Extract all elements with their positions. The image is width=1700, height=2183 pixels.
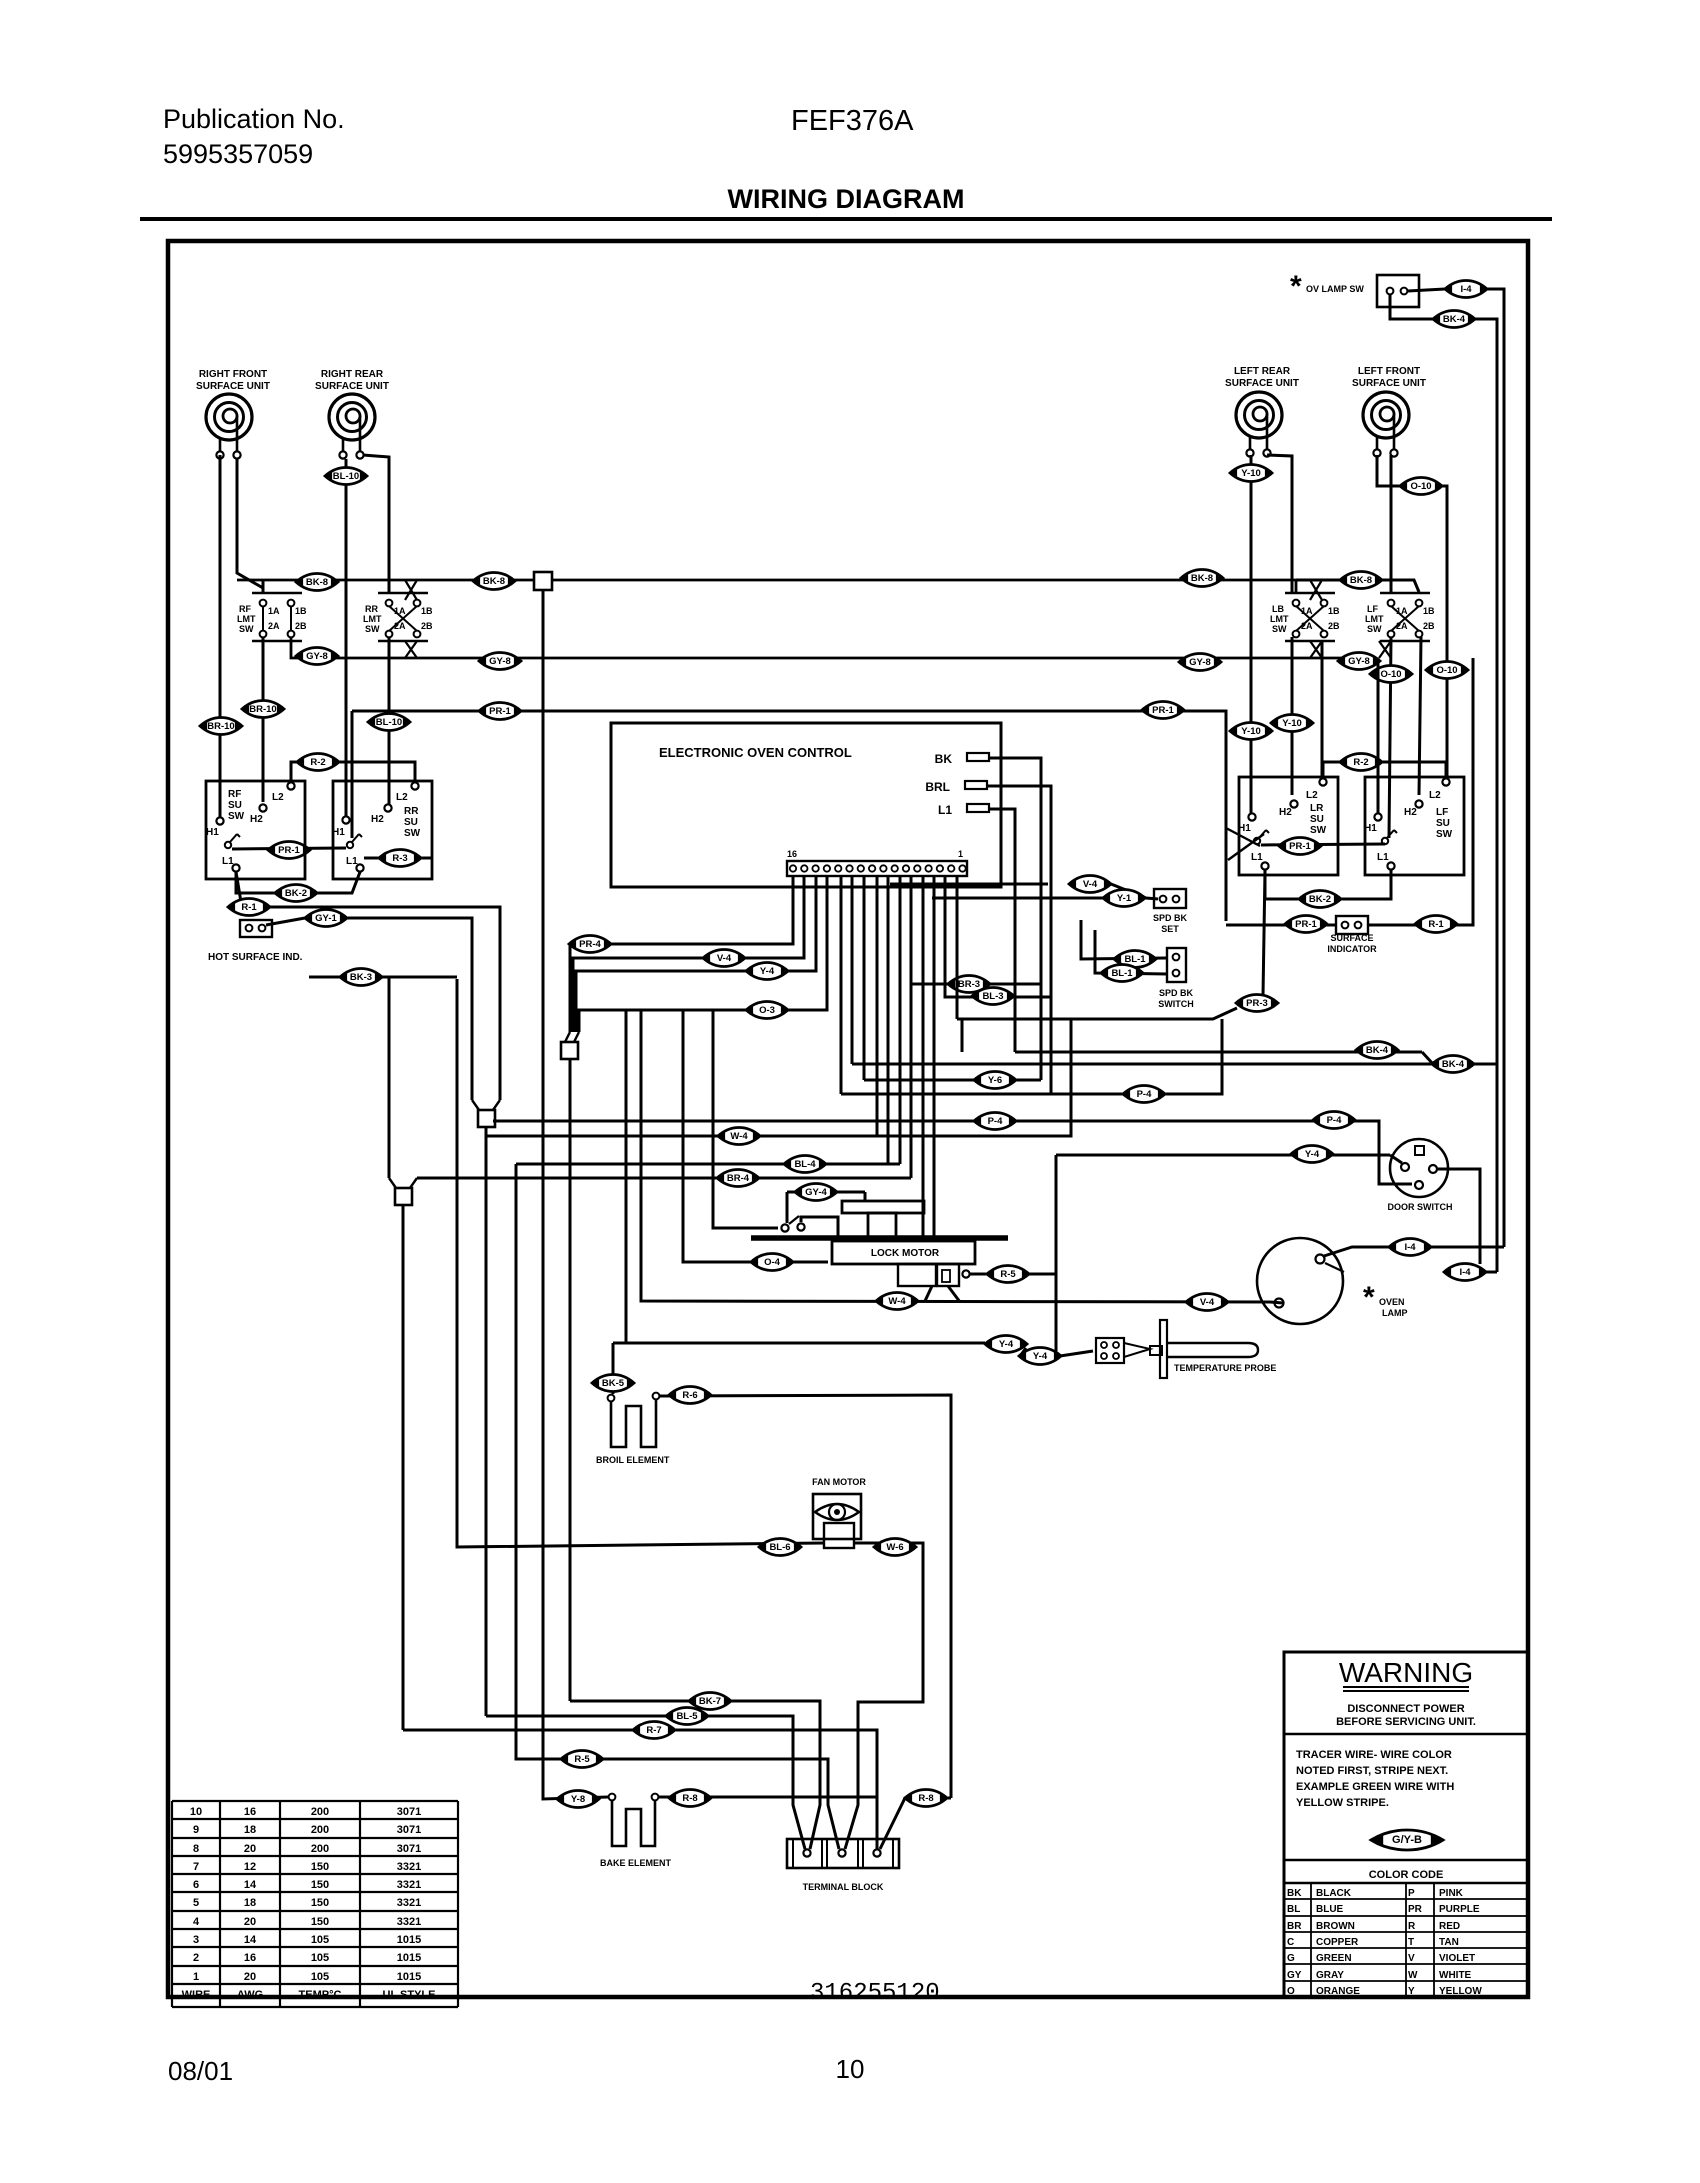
wire to BL-1 lower [1095, 930, 1167, 974]
limit switch LF LMT SW [1365, 593, 1435, 641]
wire lock R-5 line [967, 1273, 1056, 1276]
connector O-10 [1400, 478, 1442, 495]
svg-text:PR-1: PR-1 [278, 845, 300, 856]
connector G/Y-B [1371, 1830, 1443, 1850]
terminal block [787, 1839, 899, 1868]
svg-text:WHITE: WHITE [1439, 1970, 1472, 1981]
svg-text:BR-10: BR-10 [249, 704, 276, 715]
wire pin to Y-4 [576, 876, 816, 1032]
wire P-4 door line [493, 1120, 1358, 1123]
svg-text:GY-8: GY-8 [489, 656, 511, 667]
wire RF column drop [262, 580, 265, 593]
svg-text:BK-8: BK-8 [1191, 573, 1213, 584]
wire ov lamp sw to I-4 [1408, 289, 1445, 291]
connector GY-1 [305, 910, 347, 927]
surface unit LR coil [1236, 392, 1282, 457]
wire BK-2 left [236, 872, 360, 893]
connector R-1 [1415, 916, 1457, 933]
spd bk set box [1154, 889, 1186, 908]
wire pin drop 9 [887, 876, 890, 1164]
svg-text:BK-3: BK-3 [350, 972, 372, 983]
svg-text:Y-6: Y-6 [988, 1075, 1002, 1086]
svg-text:G/Y-B: G/Y-B [1392, 1834, 1422, 1846]
connector O-3 [746, 1002, 788, 1019]
wire door left drop [1055, 1155, 1058, 1352]
svg-text:20: 20 [244, 1843, 256, 1855]
svg-text:14: 14 [244, 1879, 257, 1891]
svg-text:PR-1: PR-1 [489, 706, 511, 717]
connector GY-8 [479, 653, 521, 670]
svg-text:SW: SW [1310, 825, 1327, 836]
wire P-4 to door switch bottom [1358, 1121, 1412, 1184]
wire lock funnel left [925, 1286, 932, 1301]
connector BL-3 [972, 988, 1014, 1005]
svg-text:BK-2: BK-2 [285, 888, 307, 899]
connector O-4 [751, 1254, 793, 1271]
svg-text:W-4: W-4 [888, 1296, 906, 1307]
warning box [1284, 1652, 1528, 1997]
svg-text:BL-1: BL-1 [1111, 968, 1133, 979]
svg-text:R-5: R-5 [1000, 1269, 1016, 1280]
wire pin to PR-4 [570, 876, 793, 1032]
terminal P LR [1254, 830, 1269, 844]
svg-text:W-6: W-6 [886, 1542, 903, 1553]
connector I-4 [1444, 1264, 1486, 1281]
wire ind to GY-1 [266, 918, 305, 925]
bake element [609, 1794, 659, 1846]
wire R-8 to terminal [880, 1798, 951, 1849]
svg-text:R-1: R-1 [241, 902, 257, 913]
svg-text:1A: 1A [1301, 606, 1313, 616]
svg-text:R-2: R-2 [1353, 757, 1368, 768]
svg-text:SURFACE UNIT: SURFACE UNIT [315, 381, 389, 392]
svg-text:HOT SURFACE IND.: HOT SURFACE IND. [208, 952, 303, 963]
svg-text:FAN MOTOR: FAN MOTOR [812, 1477, 866, 1487]
wire GY-8 bus [291, 637, 1344, 658]
svg-text:3321: 3321 [397, 1861, 421, 1873]
connector PR-1 [1142, 702, 1184, 719]
switch RF SU SW [206, 781, 305, 879]
svg-text:BROWN: BROWN [1316, 1921, 1355, 1932]
connector R-5 [987, 1266, 1029, 1283]
svg-text:Y-10: Y-10 [1241, 726, 1261, 737]
wire GY-1 to junction2 [347, 918, 472, 1100]
wire RF H1 lead [219, 455, 222, 817]
svg-text:H2: H2 [250, 814, 263, 825]
svg-text:TEMPERATURE PROBE: TEMPERATURE PROBE [1174, 1363, 1276, 1373]
limit switch LB LMT SW [1270, 593, 1340, 641]
wire BK-8 to LF switch [1376, 580, 1419, 592]
connector Y-10 [1271, 715, 1313, 732]
wire BK-4 second line [852, 1063, 1497, 1066]
connector P-4 [1123, 1086, 1165, 1103]
svg-text:5: 5 [193, 1897, 199, 1909]
wire pin drop 12 [922, 876, 925, 1237]
svg-text:H1: H1 [332, 827, 345, 838]
connector Y-6 [974, 1072, 1016, 1089]
wire lamp to I-4 top [1324, 1247, 1504, 1256]
svg-text:GRAY: GRAY [1316, 1970, 1344, 1981]
svg-text:ORANGE: ORANGE [1316, 1986, 1360, 1997]
connector R-1 [228, 899, 270, 916]
wire X crossover RR top [405, 580, 417, 600]
svg-text:P: P [1408, 1888, 1415, 1899]
svg-text:EXAMPLE GREEN WIRE WITH: EXAMPLE GREEN WIRE WITH [1296, 1781, 1454, 1793]
surface unit RR coil [329, 394, 375, 459]
wire crossover at LR P [1226, 828, 1264, 860]
connector BK-4 [1356, 1042, 1398, 1059]
connector R-8 [669, 1790, 711, 1807]
connector BK-7 [689, 1693, 731, 1710]
wire Y-8 run [543, 590, 608, 1799]
svg-text:H2: H2 [1404, 807, 1417, 818]
svg-text:SW: SW [239, 624, 254, 634]
svg-text:LAMP: LAMP [1382, 1308, 1408, 1318]
svg-text:1015: 1015 [397, 1952, 421, 1964]
svg-text:OV LAMP SW: OV LAMP SW [1306, 284, 1364, 294]
wire GY-4 line [787, 1191, 865, 1194]
wire BK-7 run [570, 1701, 820, 1849]
wire junction2 down [485, 1127, 488, 1716]
wire P-4/R-5 mid line [841, 1019, 1222, 1094]
svg-text:9: 9 [193, 1824, 199, 1836]
connector BR-3 [948, 976, 990, 993]
svg-text:BK-8: BK-8 [1350, 575, 1372, 586]
svg-text:SW: SW [1367, 624, 1382, 634]
svg-text:16: 16 [244, 1952, 256, 1964]
svg-text:TRACER WIRE- WIRE COLOR: TRACER WIRE- WIRE COLOR [1296, 1749, 1452, 1761]
svg-text:1A: 1A [394, 606, 406, 616]
warning title [1339, 1657, 1473, 1691]
connector P-4 [1313, 1112, 1355, 1129]
wire bake right [659, 1796, 877, 1799]
wire pin drop 6 [851, 876, 854, 1064]
svg-text:6: 6 [193, 1879, 199, 1891]
color code table [1284, 1883, 1528, 1997]
header rule [140, 217, 1552, 221]
wire L1 to R-1 [236, 872, 243, 914]
wire BK-3 drop to junction3 [388, 977, 391, 1178]
connector R-5 [561, 1751, 603, 1768]
svg-text:BL-10: BL-10 [376, 717, 402, 728]
wire surface indicator to R-1 [1368, 658, 1473, 925]
svg-text:Y-4: Y-4 [1033, 1351, 1048, 1362]
wire probe feed vertical [625, 1010, 628, 1343]
svg-text:WIRING DIAGRAM: WIRING DIAGRAM [728, 184, 965, 214]
connector R-6 [669, 1387, 711, 1404]
temperature probe assembly [1096, 1320, 1258, 1378]
connector Y-4 [1291, 1146, 1333, 1163]
connector O-10 [1370, 666, 1412, 683]
svg-text:BK: BK [1287, 1888, 1302, 1899]
wire BL-5 run [486, 1716, 805, 1849]
svg-text:3: 3 [193, 1934, 199, 1946]
wire BR-3 line [911, 983, 1041, 986]
svg-text:LR: LR [1310, 803, 1324, 814]
svg-text:SW: SW [404, 828, 421, 839]
wire I-4 door line [1444, 1271, 1497, 1274]
svg-text:Y-4: Y-4 [1305, 1149, 1320, 1160]
junction splice 2 [472, 1100, 500, 1127]
svg-text:1: 1 [193, 1971, 199, 1983]
svg-text:PR-1: PR-1 [1289, 841, 1311, 852]
wire probe jog [1020, 1348, 1026, 1356]
svg-text:08/01: 08/01 [168, 2056, 233, 2086]
connector BK-8 [473, 573, 515, 590]
wire door right circle down [1437, 1169, 1480, 1264]
svg-text:R-1: R-1 [1428, 919, 1444, 930]
svg-text:20: 20 [244, 1916, 256, 1928]
svg-text:2A: 2A [1301, 621, 1313, 631]
svg-text:BRL: BRL [925, 780, 950, 794]
wire RF H2 lead lower [262, 637, 265, 802]
wire to probe connector [1060, 1351, 1093, 1356]
connector W-4 [718, 1128, 760, 1145]
svg-text:RF: RF [228, 789, 241, 800]
svg-text:BK-2: BK-2 [1309, 894, 1331, 905]
wire gauge table [172, 1801, 458, 2007]
svg-text:LF: LF [1367, 604, 1378, 614]
connector R-2 [1340, 754, 1382, 771]
svg-text:Y-1: Y-1 [1117, 893, 1132, 904]
electronic oven control box [611, 723, 1001, 887]
svg-text:P-4: P-4 [1137, 1089, 1153, 1100]
svg-text:L2: L2 [396, 792, 408, 803]
wire to door left circle [1390, 1155, 1402, 1163]
connector BL-10 [368, 714, 410, 731]
svg-text:W-4: W-4 [730, 1131, 748, 1142]
wire X crossover LB bottom [1310, 641, 1322, 658]
wire LF H2 lead lower [1419, 637, 1421, 795]
svg-text:*: * [1363, 1281, 1375, 1314]
svg-text:R: R [1408, 1921, 1416, 1932]
svg-text:BL-3: BL-3 [982, 991, 1003, 1002]
wire X crossover RR bottom [405, 641, 417, 658]
svg-text:LMT: LMT [237, 614, 256, 624]
svg-text:3071: 3071 [397, 1806, 421, 1818]
connector PR-4 [569, 936, 611, 953]
svg-text:V: V [1408, 1953, 1415, 1964]
svg-text:2: 2 [193, 1952, 199, 1964]
connector Y-4 [985, 1336, 1027, 1353]
connector BL-4 [784, 1156, 826, 1173]
svg-text:V-4: V-4 [1083, 879, 1098, 890]
svg-text:PR-3: PR-3 [1246, 998, 1268, 1009]
svg-text:R-8: R-8 [682, 1793, 697, 1804]
connector BK-4 [1432, 1056, 1474, 1073]
connector V-4 [703, 950, 745, 967]
svg-text:L1: L1 [1251, 852, 1263, 863]
svg-text:BLUE: BLUE [1316, 1904, 1344, 1915]
svg-text:LMT: LMT [363, 614, 382, 624]
connector PR-1 [268, 842, 310, 859]
EOC pin BRL [925, 780, 987, 794]
wire pin to O-3 [579, 876, 827, 1032]
wire BK-4 line [1015, 1051, 1422, 1054]
wire X crossover LF bottom [1379, 641, 1391, 658]
wire BK-8 bus [237, 580, 1296, 593]
svg-text:I-4: I-4 [1460, 284, 1472, 295]
svg-text:O-10: O-10 [1380, 669, 1401, 680]
connector PR-3 [1236, 995, 1278, 1012]
junction splice 1 [561, 1032, 579, 1059]
connector P-4 [974, 1113, 1016, 1130]
svg-text:GY: GY [1287, 1970, 1302, 1981]
wire broil to R-6 right [660, 1395, 951, 1798]
connector BK-3 [340, 969, 382, 986]
connector BR-10 [200, 718, 242, 735]
connector V-4 [1186, 1294, 1228, 1311]
svg-text:WIRE: WIRE [182, 1989, 211, 2001]
wire R-2 loop left [291, 762, 415, 781]
svg-text:SU: SU [404, 817, 418, 828]
wire LB L2 riser [1321, 641, 1324, 777]
wire P to P right [1261, 844, 1385, 845]
svg-text:GY-8: GY-8 [1348, 656, 1370, 667]
wire LR H1 lead [1250, 455, 1253, 813]
svg-text:16: 16 [787, 849, 797, 859]
wire PR-1 bus [352, 711, 1226, 921]
svg-text:BR: BR [1287, 1921, 1302, 1932]
svg-text:TAN: TAN [1439, 1937, 1459, 1948]
connector I-4 [1389, 1239, 1431, 1256]
svg-text:150: 150 [311, 1861, 329, 1873]
svg-text:200: 200 [311, 1843, 329, 1855]
wire BK-4 diagonal [1422, 1052, 1433, 1064]
svg-text:2A: 2A [268, 621, 280, 631]
svg-text:ELECTRONIC OVEN CONTROL: ELECTRONIC OVEN CONTROL [659, 745, 852, 760]
wire RR H2 lead lower [388, 637, 391, 804]
surface indicator [1336, 916, 1368, 934]
wire Y-4 probe line [613, 1342, 985, 1345]
svg-text:R-8: R-8 [918, 1793, 933, 1804]
connector W-4 [876, 1293, 918, 1310]
svg-text:I-4: I-4 [1459, 1267, 1471, 1278]
svg-text:L2: L2 [1306, 790, 1318, 801]
connector V-4 [1069, 876, 1111, 893]
door switch [1390, 1139, 1448, 1197]
svg-text:SW: SW [1272, 624, 1287, 634]
svg-text:BEFORE SERVICING UNIT.: BEFORE SERVICING UNIT. [1336, 1716, 1476, 1728]
svg-text:BLACK: BLACK [1316, 1888, 1352, 1899]
svg-text:GREEN: GREEN [1316, 1953, 1352, 1964]
svg-text:DOOR SWITCH: DOOR SWITCH [1388, 1202, 1453, 1212]
svg-text:SU: SU [1436, 818, 1450, 829]
svg-text:L1: L1 [222, 856, 234, 867]
svg-text:GY-8: GY-8 [1189, 657, 1211, 668]
svg-text:7: 7 [193, 1861, 199, 1873]
svg-text:2B: 2B [421, 621, 433, 631]
svg-text:H2: H2 [371, 814, 384, 825]
svg-text:LF: LF [1436, 807, 1448, 818]
connector W-6 [874, 1539, 916, 1556]
wire RR H1 lead [345, 459, 348, 817]
svg-text:H1: H1 [1238, 823, 1251, 834]
surface unit RF coil [206, 394, 252, 459]
connector GY-4 [795, 1184, 837, 1201]
svg-text:LEFT REAR: LEFT REAR [1234, 366, 1291, 377]
wire RF H2 lead upper [237, 459, 263, 593]
svg-text:PR-1: PR-1 [1152, 705, 1174, 716]
svg-text:LB: LB [1272, 604, 1284, 614]
svg-text:BR-4: BR-4 [727, 1173, 750, 1184]
svg-text:RR: RR [404, 806, 419, 817]
svg-text:SWITCH: SWITCH [1158, 999, 1194, 1009]
svg-text:FEF376A: FEF376A [791, 105, 914, 137]
wire R-5 run [516, 1164, 839, 1849]
svg-text:2A: 2A [1396, 621, 1408, 631]
svg-text:SURFACE UNIT: SURFACE UNIT [1352, 378, 1426, 389]
wire lamp left stub [1270, 1302, 1283, 1303]
svg-text:Publication No.: Publication No. [163, 104, 345, 134]
svg-text:BK-4: BK-4 [1366, 1045, 1389, 1056]
svg-text:*: * [1290, 270, 1302, 303]
wire PR-1 to surface indicator [1226, 924, 1336, 927]
svg-text:BK: BK [935, 752, 953, 766]
svg-text:150: 150 [311, 1879, 329, 1891]
connector BL-5 [666, 1708, 708, 1725]
svg-text:UL STYLE: UL STYLE [383, 1989, 436, 2001]
connector Y-1 [1103, 890, 1145, 907]
svg-text:18: 18 [244, 1824, 256, 1836]
connector BK-8 [1340, 572, 1382, 589]
connector Y-10 [1230, 723, 1272, 740]
wire LF right lead [1390, 455, 1393, 593]
svg-text:1B: 1B [1423, 606, 1435, 616]
wire pin drop 10 [899, 876, 902, 1164]
connector PR-1 [1285, 916, 1327, 933]
switch LF SU SW [1364, 777, 1464, 875]
svg-text:BL-5: BL-5 [676, 1711, 698, 1722]
svg-text:1A: 1A [268, 606, 280, 616]
svg-text:105: 105 [311, 1952, 329, 1964]
terminal P RR [347, 834, 362, 848]
terminal P LF [1382, 830, 1397, 844]
svg-text:O-3: O-3 [759, 1005, 775, 1016]
svg-text:Y-10: Y-10 [1282, 718, 1302, 729]
oven lamp [1257, 1238, 1344, 1324]
wire LR H2 lead lower [1291, 637, 1294, 795]
connector R-2 [297, 754, 339, 771]
svg-text:1B: 1B [421, 606, 433, 616]
svg-text:10: 10 [190, 1806, 202, 1818]
svg-text:DISCONNECT POWER: DISCONNECT POWER [1347, 1703, 1464, 1715]
svg-text:V-4: V-4 [717, 953, 732, 964]
svg-text:H1: H1 [206, 827, 219, 838]
wire door left line [1056, 1154, 1390, 1157]
wire W-4 line [486, 1019, 1071, 1136]
svg-text:105: 105 [311, 1971, 329, 1983]
svg-text:1B: 1B [1328, 606, 1340, 616]
wire BK-3 line [309, 976, 457, 979]
terminal P RF [225, 834, 240, 848]
svg-text:1015: 1015 [397, 1971, 421, 1983]
svg-text:P-4: P-4 [988, 1116, 1004, 1127]
connector BL-1 [1114, 951, 1156, 968]
svg-text:PURPLE: PURPLE [1439, 1904, 1480, 1915]
svg-text:O-4: O-4 [764, 1257, 781, 1268]
svg-text:SPD BK: SPD BK [1153, 913, 1188, 923]
wire pin drop 11 [910, 876, 913, 1178]
wire pin drop 7 [863, 876, 866, 1080]
connector PR-1 [479, 703, 521, 720]
svg-text:GY-1: GY-1 [315, 913, 337, 924]
wire pin drop 15 [956, 876, 959, 1019]
svg-text:1A: 1A [1396, 606, 1408, 616]
wire BL-3 line [945, 876, 1051, 997]
svg-text:10: 10 [836, 2054, 865, 2084]
EOC pin BK [935, 752, 989, 766]
